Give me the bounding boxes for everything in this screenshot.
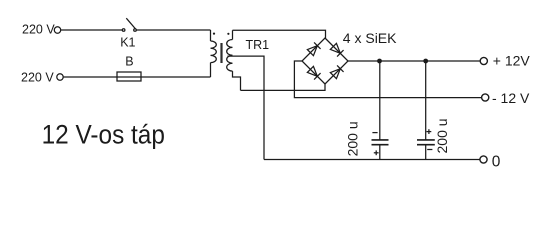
svg-text:B: B — [125, 54, 133, 68]
svg-text:+ 12V: + 12V — [493, 53, 531, 69]
svg-text:0: 0 — [492, 154, 501, 171]
svg-text:- 12 V: - 12 V — [492, 90, 530, 106]
svg-text:200 u: 200 u — [434, 118, 450, 153]
svg-text:K1: K1 — [120, 36, 135, 50]
svg-text:12 V-os táp: 12 V-os táp — [42, 120, 165, 149]
svg-text:220 V: 220 V — [21, 71, 54, 85]
svg-text:200 u: 200 u — [344, 121, 360, 156]
svg-text:220 V: 220 V — [22, 23, 55, 37]
svg-text:TR1: TR1 — [246, 38, 270, 52]
svg-text:4 x SiEK: 4 x SiEK — [343, 30, 397, 46]
